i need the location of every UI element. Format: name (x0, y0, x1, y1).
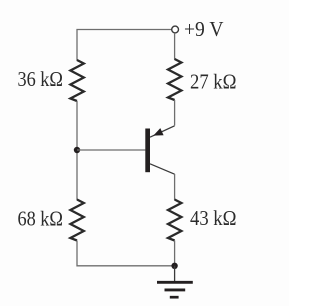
wire collector diagonal out of transistor (150, 164, 175, 174)
resistor R4 43 kΩ (168, 200, 181, 241)
wire collector vertical down to R4 top (174, 174, 176, 200)
svg-text:68 kΩ: 68 kΩ (18, 207, 64, 231)
transistor Q1 base bar (145, 129, 150, 173)
node ground junction dot (171, 263, 177, 269)
wire right branch from terminal down to R3 top (174, 33, 176, 60)
ground symbol bar 1 (157, 281, 193, 284)
resistor R1 36 kΩ (70, 60, 83, 101)
node base junction dot (74, 147, 80, 153)
wire emitter diagonal into transistor (150, 126, 175, 137)
svg-text:36 kΩ: 36 kΩ (18, 67, 64, 91)
transistor Q1 emitter arrow (PNP, pointing into base bar) (153, 128, 163, 136)
svg-text:43 kΩ: 43 kΩ (190, 206, 237, 230)
wire emitter vertical (R3 bottom down) (174, 100, 176, 126)
wire left branch lower and bottom rail (77, 241, 175, 266)
resistor R2 68 kΩ (70, 200, 83, 241)
node +9 V supply terminal (open circle) (172, 26, 179, 33)
wire left branch vertical middle (R1 bottom through node to R2 top) (76, 101, 78, 200)
ground symbol bar 3 (170, 296, 179, 299)
wire top horizontal from left branch to +9V terminal (77, 30, 172, 61)
svg-text:+9 V: +9 V (184, 17, 224, 41)
svg-text:27 kΩ: 27 kΩ (190, 70, 237, 94)
ground symbol bar 2 (165, 288, 186, 291)
resistor R3 27 kΩ (168, 59, 181, 100)
wire right branch lower (R4 bottom to ground node) (174, 241, 176, 266)
wire base horizontal from junction to transistor base (77, 149, 145, 151)
wire ground stub vertical (174, 266, 176, 282)
